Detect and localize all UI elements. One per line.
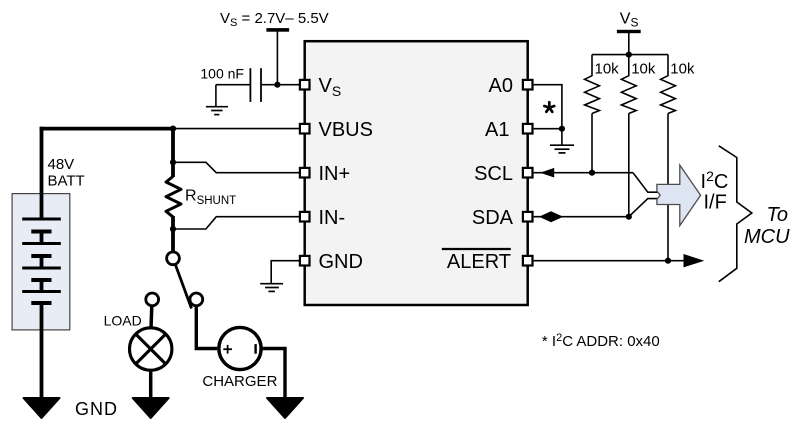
svg-text:I2C: I2C bbox=[701, 168, 729, 193]
svg-text:GND: GND bbox=[75, 399, 118, 419]
svg-text:A1: A1 bbox=[485, 119, 509, 141]
svg-text:SCL: SCL bbox=[474, 163, 513, 185]
svg-text:To: To bbox=[767, 204, 789, 226]
svg-text:CHARGER: CHARGER bbox=[202, 373, 277, 390]
svg-text:100 nF: 100 nF bbox=[200, 65, 244, 81]
svg-text:IN+: IN+ bbox=[319, 163, 351, 185]
svg-text:VBUS: VBUS bbox=[319, 119, 373, 141]
svg-text:BATT: BATT bbox=[48, 173, 85, 190]
svg-text:ALERT: ALERT bbox=[447, 251, 511, 273]
svg-text:10k: 10k bbox=[595, 60, 620, 77]
svg-text:GND: GND bbox=[319, 251, 363, 273]
svg-text:10k: 10k bbox=[631, 60, 656, 77]
svg-text:MCU: MCU bbox=[744, 226, 790, 248]
svg-text:SDA: SDA bbox=[472, 207, 514, 229]
svg-text:10k: 10k bbox=[670, 60, 695, 77]
svg-text:LOAD: LOAD bbox=[104, 312, 142, 328]
svg-text:IN-: IN- bbox=[319, 207, 346, 229]
svg-text:48V: 48V bbox=[48, 156, 75, 173]
svg-text:I/F: I/F bbox=[704, 192, 727, 214]
svg-text:A0: A0 bbox=[489, 75, 513, 97]
